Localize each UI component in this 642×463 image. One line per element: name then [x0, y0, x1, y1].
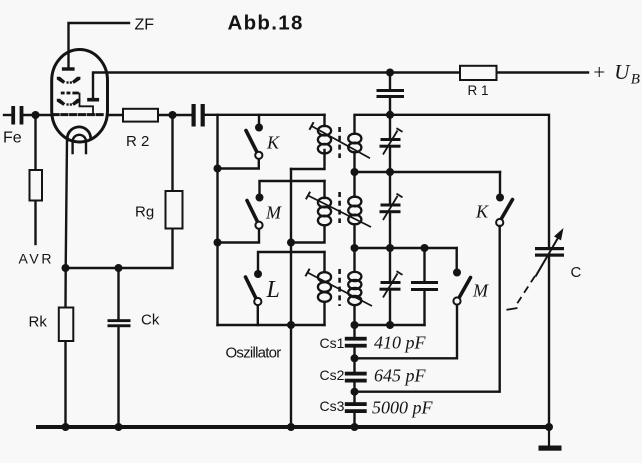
svg-text:5000 pF: 5000 pF: [372, 398, 434, 418]
svg-text:AVR: AVR: [19, 251, 55, 267]
svg-text:Ck: Ck: [141, 312, 160, 329]
svg-text:R 2: R 2: [126, 133, 149, 150]
svg-text:Cs2: Cs2: [320, 367, 345, 383]
svg-text:Rk: Rk: [29, 314, 48, 331]
svg-text:M: M: [265, 203, 282, 223]
svg-text:645 pF: 645 pF: [374, 366, 427, 386]
svg-text:M: M: [472, 281, 489, 301]
svg-text:C: C: [571, 264, 582, 281]
svg-text:L: L: [266, 277, 280, 303]
svg-text:K: K: [475, 202, 489, 222]
svg-text:K: K: [266, 133, 280, 153]
svg-text:Cs3: Cs3: [320, 398, 345, 414]
svg-text:R 1: R 1: [468, 83, 489, 98]
svg-text:Rg: Rg: [135, 204, 154, 221]
svg-text:ZF: ZF: [135, 17, 155, 34]
svg-text:Oszillator: Oszillator: [226, 345, 282, 362]
svg-text:Abb.18: Abb.18: [228, 12, 304, 35]
svg-text:Cs1: Cs1: [320, 335, 345, 351]
svg-text:Fe: Fe: [3, 130, 22, 147]
svg-text:410 pF: 410 pF: [374, 333, 427, 353]
svg-text:+ UB: + UB: [592, 60, 641, 88]
